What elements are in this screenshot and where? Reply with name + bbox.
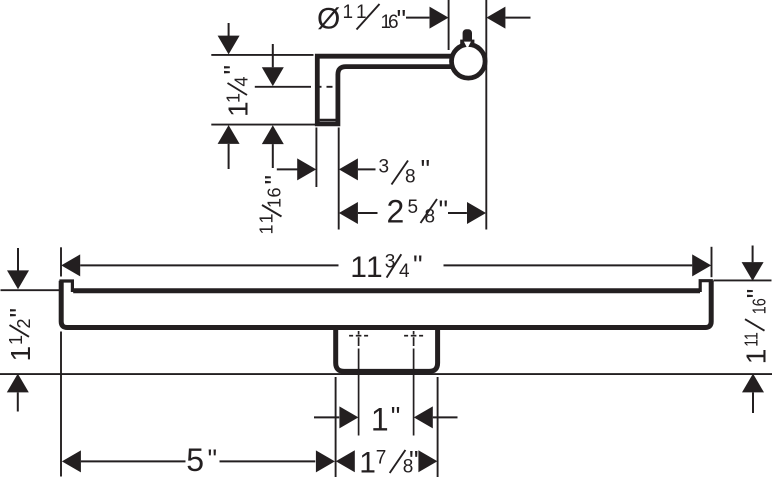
svg-text:1: 1 — [371, 402, 389, 438]
svg-text:": " — [421, 154, 431, 184]
extension line circle left — [448, 0, 450, 50]
svg-text:": " — [409, 446, 419, 476]
svg-text:1: 1 — [343, 2, 354, 23]
dimension 3/8 — [277, 168, 299, 170]
svg-text:1: 1 — [350, 251, 367, 284]
extension line below plate left — [315, 128, 317, 188]
svg-text:4: 4 — [232, 76, 252, 86]
extension line circle right — [485, 0, 487, 230]
left hook — [61, 281, 72, 292]
dimension 1 7/8 — [336, 450, 355, 472]
svg-text:3: 3 — [385, 252, 396, 273]
svg-text:1: 1 — [224, 93, 244, 103]
svg-text:1: 1 — [366, 251, 383, 284]
stub on top of circle — [463, 29, 472, 44]
extension line top edge — [211, 54, 313, 56]
svg-text:4: 4 — [399, 261, 410, 282]
mounting block — [336, 330, 438, 372]
svg-text:": " — [260, 175, 290, 185]
label 1 1/4" (rotated) — [219, 65, 254, 117]
svg-text:": " — [219, 65, 249, 75]
svg-text:": " — [439, 195, 449, 225]
svg-text:Ø: Ø — [317, 3, 340, 36]
svg-text:1: 1 — [265, 198, 285, 208]
svg-text:1: 1 — [359, 446, 376, 479]
dimension 11 3/4 — [61, 254, 80, 276]
right hook — [700, 281, 711, 292]
top-left extension line of bar — [1, 289, 60, 291]
svg-text:": " — [413, 250, 423, 280]
extension line bottom of plate — [211, 124, 317, 126]
dimension 1 1/4 upper arrow — [228, 23, 230, 37]
svg-text:6: 6 — [265, 187, 285, 197]
svg-text:3: 3 — [379, 157, 390, 178]
svg-text:16: 16 — [750, 298, 770, 314]
white notch at circle top — [464, 42, 471, 49]
svg-text:1: 1 — [741, 349, 772, 365]
centerline of mounting hole — [255, 86, 311, 88]
svg-text:": " — [391, 401, 401, 431]
label 1 11/16" (rotated) — [741, 289, 772, 365]
wall reference line — [0, 373, 772, 375]
dimension 11/16 lower arrow — [262, 125, 284, 144]
top-right extension line of hook — [714, 279, 772, 281]
right vertical extension line — [711, 247, 713, 277]
svg-text:2: 2 — [387, 194, 405, 230]
dimension 2 5/8 — [339, 202, 358, 224]
svg-text:": " — [397, 5, 407, 35]
dimension 1 11/16 right — [752, 246, 754, 263]
right screw centerline — [404, 331, 423, 436]
label 1 1/2" (rotated) — [5, 308, 37, 362]
svg-text:5: 5 — [408, 197, 419, 218]
wall plate inner cap line — [320, 119, 336, 121]
dimension 1 1/2 left — [17, 248, 19, 272]
svg-text:2: 2 — [14, 318, 34, 328]
svg-text:1: 1 — [257, 213, 277, 223]
svg-text:7: 7 — [376, 447, 387, 468]
svg-text:1: 1 — [6, 335, 26, 345]
svg-text:5: 5 — [186, 442, 204, 478]
label 11/16" (rotated) — [257, 175, 290, 235]
left screw centerline — [349, 331, 368, 436]
svg-text:": " — [208, 444, 218, 474]
svg-text:1: 1 — [257, 224, 277, 234]
dimension circle diameter — [406, 17, 429, 19]
bar cross-section circle — [452, 45, 486, 79]
svg-text:11: 11 — [742, 332, 762, 347]
bracket outline (wall plate + arm) — [317, 56, 452, 124]
extension line below plate right — [338, 128, 340, 230]
svg-text:8: 8 — [405, 167, 416, 188]
bar top line — [73, 288, 700, 293]
bar outline — [61, 281, 711, 328]
dimension 1 inch — [314, 416, 339, 418]
svg-text:1: 1 — [5, 346, 36, 362]
left vertical extension line — [60, 247, 62, 276]
dimension 11/16 upper arrow — [272, 44, 274, 67]
svg-text:": " — [742, 289, 772, 299]
block edge extension lines — [335, 377, 337, 477]
svg-text:8: 8 — [425, 207, 436, 228]
dimension 5 inch — [62, 450, 81, 472]
dimension 1 1/4 lower arrow — [218, 125, 240, 144]
svg-text:": " — [5, 308, 35, 318]
